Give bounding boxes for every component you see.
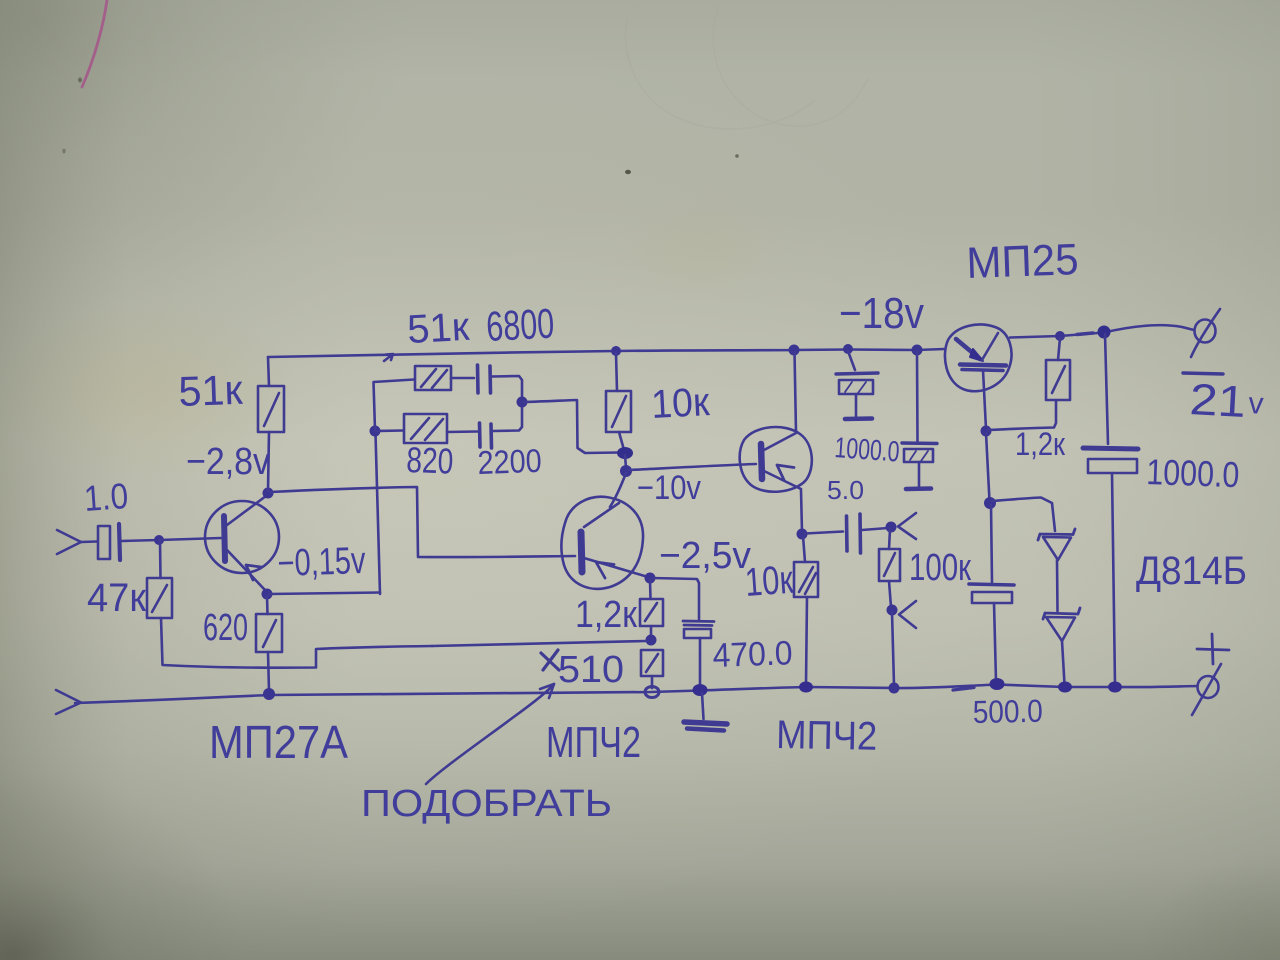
wire emitter node down to R 10k second [803,536,805,562]
capacitor second inner hatch [910,451,928,461]
svg-text:5.0: 5.0 [827,475,864,505]
resistor R 10k second hatch [799,567,816,594]
svg-text:−18v: −18v [839,289,924,338]
node Q2 emitter [645,573,656,584]
wire C 6800 to right node [492,376,522,400]
node bottom rail at 10k second [799,682,813,693]
tick small arrow mark on rail [384,354,393,361]
wire Q2 collector lead [610,473,626,507]
svg-text:47к: 47к [87,576,146,620]
resistor R 620 body [256,614,282,652]
node Q2 collector lower [620,465,632,477]
wire R 51k top to rail [268,357,269,386]
resistor R 51k body [258,386,284,432]
resistor R 10k first body [606,391,631,432]
resistor R 47k hatch [152,585,167,612]
wire Q3 collector to rail [795,352,797,432]
capacitor C out lower lead [1112,473,1115,685]
wire input to cap [81,540,97,543]
capacitor C 6800 bars [478,365,491,393]
svg-text:МПЧ2: МПЧ2 [776,713,878,759]
capacitor C out bottom plate box [1088,459,1137,473]
svg-text:1000.0: 1000.0 [1146,451,1240,495]
wire R to C 6800 [451,377,474,380]
transistor Q3 MP42 circle [740,427,812,492]
transistor Q4 emitter thick stroke [956,339,980,359]
capacitor second end bar [906,486,931,491]
wire Q3 emitter lead down [801,490,802,532]
capacitor C 1000.0 first top plate [836,373,878,374]
node zener tap [984,497,996,509]
diode D1 cathode bar [1038,529,1075,540]
capacitor C 1000.0 first inner hatch [845,382,866,393]
capacitor C out 1000.0 lead [1105,334,1108,444]
wire cap to base node [121,540,159,541]
capacitor C 1000.0 first bottom plate box [839,380,873,394]
transistor Q2 collector stroke [584,503,619,527]
transistor Q3 emitter arrowhead [777,465,794,480]
wire node to Q1 base [159,538,221,540]
resistor R 100k hatch [884,553,895,576]
capacitor C 1000.0 first lead [848,351,855,370]
node input base [154,535,164,545]
svg-text:51к: 51к [406,305,471,352]
node bottom rail Q1 [263,688,275,700]
svg-text:−0,15v: −0,15v [277,540,366,585]
wire emitter node down to R 620 [266,596,269,614]
wire RC left node up to upper branch [374,380,415,431]
transistor Q1 emitter arrowhead [246,565,261,580]
arrow podobrat arrowhead [540,684,554,698]
diode D2 triangle [1046,617,1075,641]
capacitor C 470 bottom plate box [684,629,711,638]
wire C 5.0 to wiper node [862,528,888,530]
resistor R 820 hatch [411,418,443,440]
wire C 470 to rail [699,638,702,687]
resistor R 10k first hatch [612,396,626,427]
svg-text:1,2к: 1,2к [1015,426,1066,462]
transistor Q4 emitter arrowhead [970,349,983,361]
node top rail at 10k [611,346,621,356]
chevron wiper bottom [899,601,916,628]
svg-text:2200: 2200 [477,442,542,481]
resistor R 47k body [147,578,172,618]
wire R 1.2k to node 510 [650,626,653,638]
capacitor C 1000.0 first end bar [845,416,872,421]
transistor Q1 emitter stroke [227,550,265,590]
node Q4 base bottom [981,426,992,437]
node bottom rail at 100k [889,683,900,694]
node between 1.2k and 510 [646,635,657,646]
transistor Q3 emitter stroke [764,471,801,489]
wire R 510 bottom to rail [651,676,654,688]
svg-text:МП27А: МП27А [209,716,348,768]
svg-text:6800: 6800 [485,299,555,349]
wire RC left node to lower branch [375,429,403,432]
wire R 47k bottom feedback run [161,618,432,668]
transistor Q1 collector stroke [227,496,266,525]
plus sign near output [1197,634,1229,664]
node wiper bottom [887,605,898,616]
node Q1 collector [263,488,274,499]
wire C 2200 to right node [493,404,522,431]
transistor Q2 base bar [581,532,582,572]
wire Q2 emitter to C 470 [652,578,699,619]
wire Q3 emitter to C 5.0 [805,532,843,534]
diode D2 cathode bar [1043,608,1080,619]
resistor R 100k body [879,549,900,581]
node output rail at C out [1098,326,1111,339]
wire Q2 emitter to R 1.2k [649,580,652,599]
capacitor C1 1.0 plate box [98,526,110,559]
overline above 21v [1183,373,1223,374]
wire Q1 collector to Q2 base coupling [270,487,575,557]
transistor Q4 MP25 circle [945,325,1012,392]
wire top supply rail [268,349,944,357]
capacitor C 2200 bars [480,423,492,448]
ground bar [684,722,727,724]
arrow podobrat pointer line [426,684,554,784]
speck 2 [625,170,631,174]
capacitor second bottom plate box [904,449,933,462]
wire ground stub [702,693,704,719]
svg-text:10к: 10к [744,558,795,605]
wire R 10k top to rail [616,353,617,391]
wire Q4 base lead down [983,370,986,429]
wire R 100k to lower node [889,581,891,607]
svg-text:МПЧ2: МПЧ2 [546,718,641,767]
node bottom rail at 510 ring [645,687,659,698]
capacitor C 500 top plate [969,584,1014,585]
transistor Q4 collector stroke [982,333,998,360]
capacitor C 5.0 bars [847,514,861,553]
resistor R 820 body [404,414,447,443]
node wiper top [886,522,897,533]
terminal bottom right circle [1198,676,1219,698]
resistor R 1.2k out hatch [1052,366,1065,393]
pink pen mark top left [82,0,107,87]
resistor R 620 hatch [263,620,276,647]
node bottom rail at C470 [693,684,708,696]
terminal output top slash [1191,309,1220,357]
svg-text:470.0: 470.0 [712,634,793,675]
transistor Q4 base bar [960,365,1006,366]
resistor R 510 hatch [646,654,658,672]
capacitor C out top plate [1083,448,1138,449]
capacitor second stem [918,462,921,486]
wire R 820 to C 2200 [447,430,477,433]
capacitor C 500 bottom plate box [972,592,1012,603]
resistor R 510 body [641,650,663,676]
svg-text:1.0: 1.0 [83,475,130,519]
transistor Q2 emitter arrowhead [596,562,614,578]
svg-text:10к: 10к [650,380,711,427]
node Q1 emitter [262,589,273,600]
svg-text:−2,8v: −2,8v [186,441,270,483]
wire R 10k bottom to collector node [619,432,624,450]
wire node to R 1.2k out [988,400,1056,430]
node bottom rail at C out [1108,682,1122,693]
resistor R 1.2k out body [1046,360,1070,400]
wire retrace dash on bottom rail [953,688,974,691]
wire feedback long run into node [432,641,646,646]
node RC network right [517,397,528,408]
node top rail at second cap [912,345,923,356]
wire tap to diode chain [992,498,1055,532]
wire collector node up to R 51k [268,432,269,491]
svg-text:−10v: −10v [637,469,701,507]
transistor Q1 base bar [224,516,225,561]
wire thick retrace dash on rail [1077,333,1093,335]
speck 3 [735,154,739,158]
resistor R 10k second body [794,562,818,597]
node bottom rail at C500 [990,678,1005,690]
resistor R 1.2k q2 hatch [645,603,657,621]
wire node to R 100k [889,529,890,549]
svg-text:ПОДОБРАТЬ: ПОДОБРАТЬ [361,783,612,825]
svg-text:−2,5v: −2,5v [659,535,751,577]
svg-text:21: 21 [1188,375,1246,427]
node Q3 emitter [797,529,808,540]
transistor Q2 MP42 circle [561,497,643,589]
wire tap down to C 500 [991,505,992,582]
transistor Q3 base bar [761,444,762,479]
node Q2 collector upper blob [617,447,633,459]
wire collector node to Q3 base [629,464,756,470]
transistor Q2 emitter stroke [584,558,648,577]
node top rail at C 1000.0 [843,344,853,354]
wire node down to zener tap [986,433,990,501]
wire between collector nodes [625,455,626,468]
wire R 10k second to rail [806,597,807,684]
wire R 620 bottom to rail [268,652,269,691]
svg-text:510: 510 [558,649,624,691]
svg-text:v: v [1248,387,1265,421]
capacitor second lead from rail [916,352,919,441]
wire R 1.2k out top to rail [1058,338,1060,360]
resistor R 51k hatch [264,393,279,426]
transistor Q1 MP27A circle [205,501,279,573]
terminal bottom slash [1192,664,1221,715]
capacitor C 1000.0 first stem [855,394,858,416]
resistor R upper feedback hatch [421,369,447,388]
capacitor second top plate [902,441,937,445]
wire top rail right of output transistor [1010,325,1194,337]
svg-text:500.0: 500.0 [972,693,1043,730]
svg-text:1000.0: 1000.0 [834,432,901,468]
wire RC right node to Q2 collector net [524,400,619,453]
node RC network left [370,426,381,437]
wire D2 to rail [1062,641,1065,684]
svg-text:МП25: МП25 [966,235,1080,288]
svg-text:51к: 51к [178,366,244,415]
svg-text:100к: 100к [909,547,971,589]
svg-text:1,2к: 1,2к [575,594,637,636]
node output rail at 1.2k top [1055,331,1065,341]
ground bar second stroke [687,729,724,731]
node top rail at Q3 collector [789,345,800,356]
ghost impression arcs [626,8,868,129]
wire feedback riser vertical [376,434,381,594]
capacitor C 470 top plate [683,621,714,626]
wire node down to R 47k [159,540,162,578]
node bottom rail at diodes [1058,682,1072,693]
resistor R upper feedback body [415,366,451,390]
svg-text:Д814Б: Д814Б [1136,549,1247,593]
speck 4 [62,149,65,154]
chevron input [57,530,81,554]
cross mark before 510 [541,650,559,670]
svg-text:820: 820 [406,439,454,482]
svg-text:620: 620 [203,607,248,649]
wire bottom rail [75,685,1197,704]
capacitor C 500 stem [994,603,996,681]
chevron wiper top [898,513,916,539]
capacitor C1 1.0 plate bar [119,524,120,560]
transistor Q3 collector stroke [764,433,796,450]
diode D1 triangle [1043,537,1071,560]
wire D1 to D2 [1056,560,1059,611]
resistor R 1.2k q2 body [640,599,663,626]
chevron bottom rail left [56,690,81,714]
terminal output top circle [1195,320,1216,343]
wire emitter node to feedback riser [269,593,380,595]
wire lower node to rail [892,612,894,685]
speck 1 [78,78,82,83]
